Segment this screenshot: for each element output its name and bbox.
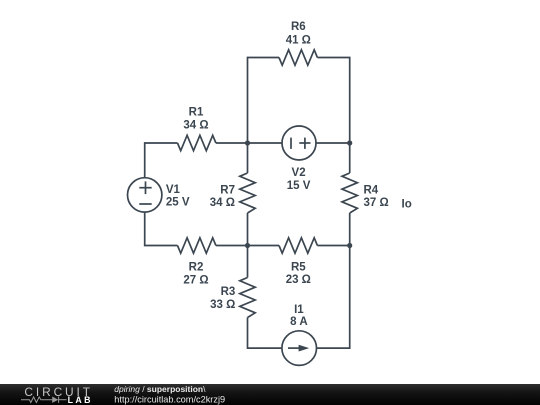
svg-text:I1: I1 <box>294 304 304 316</box>
svg-text:37 Ω: 37 Ω <box>364 197 389 209</box>
wire R6 to node B via top right corner <box>317 58 349 144</box>
resistor R7 <box>240 173 255 213</box>
current source I1 circle <box>282 331 317 366</box>
svg-text:R1: R1 <box>189 106 204 118</box>
node B junction dot <box>347 140 352 145</box>
wire V1 bottom to R2 <box>145 212 178 245</box>
node D junction dot <box>347 243 352 248</box>
wire node A down to R7 <box>247 143 249 173</box>
wire node C to R5 <box>248 245 280 247</box>
V1 minus sign <box>139 203 151 205</box>
svg-text:V1: V1 <box>166 184 181 196</box>
svg-text:34 Ω: 34 Ω <box>210 197 235 209</box>
I1 arrow shaft <box>288 347 301 349</box>
wire node B down to R4 <box>349 143 351 173</box>
svg-text:dpiring / superposition\: dpiring / superposition\ <box>114 384 206 394</box>
resistor R5 <box>279 238 317 253</box>
resistor R4 <box>342 173 357 213</box>
V1 plus sign <box>139 187 151 189</box>
svg-text:R5: R5 <box>291 261 306 273</box>
svg-text:R2: R2 <box>189 261 204 273</box>
svg-text:R3: R3 <box>221 286 236 298</box>
svg-text:R6: R6 <box>291 21 306 33</box>
wire V2 to node B <box>316 142 350 144</box>
svg-text:15 V: 15 V <box>287 180 311 192</box>
svg-text:Io: Io <box>402 199 412 211</box>
svg-text:25 V: 25 V <box>166 197 190 209</box>
logo diode triangle <box>52 397 58 403</box>
wire node A up and top loop left <box>248 58 280 144</box>
resistor R1 <box>178 135 216 150</box>
resistor R3 <box>240 278 255 318</box>
wire R1 to node A <box>216 142 248 144</box>
node A junction dot <box>245 140 250 145</box>
I1 arrow head <box>299 345 310 352</box>
svg-text:http://circuitlab.com/c2krzj9: http://circuitlab.com/c2krzj9 <box>114 395 225 405</box>
svg-text:8 A: 8 A <box>290 316 307 328</box>
V2 plus sign <box>299 142 310 144</box>
svg-text:V2: V2 <box>292 167 306 179</box>
resistor R6 <box>279 50 317 65</box>
svg-text:LAB: LAB <box>68 395 93 405</box>
resistor R2 <box>178 238 216 253</box>
wire V1 top to R1 <box>145 143 178 178</box>
voltage source V1 circle <box>128 178 162 212</box>
node C junction dot <box>245 243 250 248</box>
wire R4 to node D <box>349 213 351 246</box>
voltage source V2 circle <box>282 126 316 160</box>
svg-text:R4: R4 <box>364 185 379 197</box>
wire node C down to R3 <box>247 246 249 278</box>
wire I1 to node D right side <box>317 246 350 349</box>
svg-text:R7: R7 <box>220 184 235 196</box>
svg-text:34 Ω: 34 Ω <box>183 119 208 131</box>
V2 minus bar <box>290 138 292 149</box>
logo squiggle wire <box>21 397 67 403</box>
svg-text:23 Ω: 23 Ω <box>286 274 311 286</box>
wire R3 down to I1 <box>248 318 282 349</box>
footer bar <box>0 384 540 405</box>
wire node A to V2 <box>248 142 283 144</box>
svg-text:27 Ω: 27 Ω <box>183 274 208 286</box>
svg-text:33 Ω: 33 Ω <box>210 299 235 311</box>
wire R5 to node D <box>317 245 349 247</box>
svg-text:41 Ω: 41 Ω <box>286 35 311 47</box>
wire R7 to node C <box>247 213 249 246</box>
wire R2 to node C <box>216 245 248 247</box>
